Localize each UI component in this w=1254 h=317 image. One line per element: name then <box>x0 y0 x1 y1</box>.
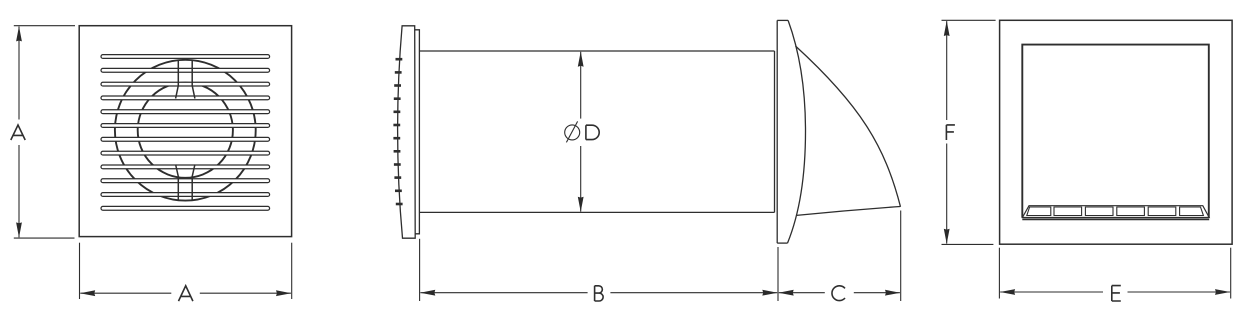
louver edge tick 7 <box>393 137 400 140</box>
louver edge tick 8 <box>394 150 401 153</box>
outer flange left edge <box>776 20 778 243</box>
louver edge tick 10 <box>394 176 401 179</box>
dim C: label C <box>832 286 845 301</box>
grille center rib bottom-right <box>192 165 195 201</box>
outer flange top edge <box>777 19 788 21</box>
dim B: left arrowhead <box>420 290 435 296</box>
louver edge tick 11 <box>395 190 402 193</box>
dim E: left arrowhead <box>1000 289 1015 295</box>
grille slat 11 <box>101 193 270 197</box>
dim A horizontal: label A <box>179 286 193 301</box>
dim A horizontal: dimension line left segment <box>80 292 171 294</box>
exterior grille outer square <box>1000 20 1233 244</box>
dim B: right extension line <box>777 247 779 301</box>
front view outer square <box>79 26 291 237</box>
dim F: label F <box>946 125 955 140</box>
dim A vertical: label A <box>11 125 25 140</box>
grille slat 3 <box>101 82 270 86</box>
dim A horizontal: left arrowhead <box>80 290 95 296</box>
dim E: right arrowhead <box>1215 289 1230 295</box>
grille inner circle <box>138 83 233 178</box>
louver edge tick 9 <box>394 163 401 166</box>
dim F: bottom extension line <box>942 243 994 245</box>
dim B: left extension line <box>419 239 421 301</box>
fan mounting plate (side view) <box>415 30 420 234</box>
dim D: dimension line lower segment <box>580 146 582 212</box>
dim A vertical: top extension line <box>14 25 75 27</box>
dim A vertical: top arrowhead <box>16 26 22 41</box>
grille slat 6 <box>101 124 270 128</box>
dim A horizontal: right extension line <box>291 243 293 299</box>
dim D: diameter symbol circle <box>565 125 580 140</box>
grille slat 2 <box>101 68 270 72</box>
dim C: dimension line left segment <box>779 292 825 294</box>
grille center rib bottom-left <box>176 165 179 201</box>
dim D: diameter symbol slash <box>566 121 577 142</box>
duct top line <box>419 50 774 52</box>
louver edge tick 2 <box>395 71 402 74</box>
dim C: right extension line <box>900 211 902 302</box>
grille slat 8 <box>101 151 270 155</box>
outer flange bottom edge <box>777 242 787 244</box>
dim E: right extension line <box>1230 248 1232 299</box>
dim A horizontal: dimension line right segment <box>200 292 291 294</box>
dim D: dimension line upper segment <box>580 52 582 119</box>
grille center rib top-right <box>192 60 195 99</box>
grille slat 12 <box>101 206 270 210</box>
louver pane 1 <box>1027 207 1051 216</box>
dim E: dimension line right segment <box>1128 291 1230 293</box>
dim F: dimension line lower segment <box>946 144 948 244</box>
dim A horizontal: left extension line <box>79 243 81 299</box>
dim E: dimension line left segment <box>1000 291 1103 293</box>
dim F: bottom arrowhead <box>944 229 950 244</box>
dim B: label B <box>595 286 604 301</box>
dim A vertical: dimension line lower segment <box>18 145 20 237</box>
dim C: right arrowhead <box>885 290 900 296</box>
dim F: top extension line <box>942 19 996 21</box>
dim F: dimension line upper segment <box>946 21 948 120</box>
cowl inner arc <box>788 20 806 243</box>
duct end cap line <box>774 51 776 212</box>
louver pane 5 <box>1148 207 1176 216</box>
dim F: top arrowhead <box>944 21 950 36</box>
dim B: right arrowhead <box>762 290 777 296</box>
louver edge tick 12 <box>396 203 403 206</box>
dim B: dimension line right segment <box>610 292 777 294</box>
dim A vertical: bottom extension line <box>14 237 75 239</box>
dim B: dimension line left segment <box>420 292 587 294</box>
louver edge tick 5 <box>394 111 401 114</box>
exterior grille inner square bottom edge <box>1022 218 1209 220</box>
cowl outer sweep curve <box>796 46 901 207</box>
louver edge tick 3 <box>394 84 401 87</box>
fan front plate (side view) <box>398 26 416 238</box>
grille slat 1 <box>101 55 270 59</box>
duct bottom line <box>419 211 774 213</box>
dim C: dimension line right segment <box>854 292 900 294</box>
grille slat 5 <box>101 110 270 114</box>
exterior grille inner square (sides and top) <box>1022 45 1209 218</box>
louver edge tick 1 <box>396 58 403 61</box>
grille slat 4 <box>101 96 270 100</box>
dim D: bottom arrowhead <box>578 197 584 212</box>
louver edge tick 6 <box>393 124 400 127</box>
louver edge tick 4 <box>394 97 401 100</box>
dim E: left extension line <box>998 248 1000 299</box>
dim E: label E <box>1112 286 1121 301</box>
grille slat 9 <box>101 165 270 169</box>
louver pane 6 <box>1180 207 1204 216</box>
grille center rib top-left <box>176 60 179 99</box>
dim C: left arrowhead <box>779 290 794 296</box>
dim D: label D <box>586 125 599 139</box>
grille slat 7 <box>101 137 270 141</box>
grille slat 10 <box>101 179 270 183</box>
louver pane 2 <box>1054 207 1082 216</box>
louver pane 3 <box>1085 207 1113 216</box>
dim D: top arrowhead <box>578 52 584 67</box>
louver strip outline <box>1022 206 1209 218</box>
dim A vertical: bottom arrowhead <box>16 222 22 237</box>
grille outer circle <box>115 60 256 201</box>
dim A horizontal: right arrowhead <box>276 290 291 296</box>
louver pane 4 <box>1117 207 1145 216</box>
dim A vertical: dimension line upper segment <box>18 27 20 120</box>
cowl bottom edge <box>797 207 901 216</box>
